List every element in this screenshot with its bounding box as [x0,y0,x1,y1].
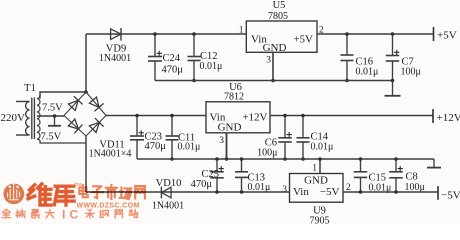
wire bridge bottom vertical [85,136,87,192]
ground symbol center tap [54,116,56,126]
svg-text:7.5V: 7.5V [42,103,63,114]
ground symbol right end [433,159,435,167]
svg-text:3: 3 [266,56,271,66]
svg-text:TM: TM [75,182,82,187]
svg-text:7905: 7905 [310,216,330,225]
svg-text:U5: U5 [273,0,286,11]
svg-text:GND: GND [263,42,287,54]
svg-text:470μ: 470μ [145,141,167,152]
svg-text:0.01μ: 0.01μ [311,142,334,153]
svg-text:1: 1 [239,26,244,36]
diode VD11 b (top-right) [89,97,99,107]
node +12V terminal [432,109,434,123]
svg-text:+12V: +12V [242,112,267,124]
op-amp U9 regulator 7905 box [290,174,344,203]
capacitor C8 100u [395,159,397,192]
svg-text:WWW.DZSC.COM: WWW.DZSC.COM [77,203,140,210]
svg-text:1: 1 [312,164,317,174]
pin 3 U5 GND lead [272,52,274,80]
diode VD10 [161,187,171,198]
wire main ground rail [137,158,434,160]
wire +5V output rail [317,33,434,35]
svg-text:3: 3 [282,185,287,195]
node junction bridge top vertex [84,90,88,94]
capacitor C7 100u [392,34,394,81]
watermark text dianzishichangwang [79,185,87,197]
wire primary bottom lead [16,134,30,136]
svg-text:+5V: +5V [437,30,457,42]
transformer primary winding [26,102,30,136]
diode VD11 d (bottom-right) [89,122,99,132]
svg-text:470μ: 470μ [162,65,184,76]
wire +5V section ground line [155,80,393,82]
transformer core [31,98,33,140]
diode VD11 a (left-top) [68,100,78,110]
svg-text:Vin: Vin [293,186,309,198]
capacitor C25 470u [216,159,218,192]
svg-text:C8: C8 [406,172,418,183]
capacitor C24 470u [154,34,156,81]
svg-text:0.01μ: 0.01μ [369,183,392,194]
capacitor C15 0.01u [360,159,362,192]
wire secondary top connect [37,96,40,99]
capacitor C12 0.01u [193,34,195,81]
svg-text:1N4001×4: 1N4001×4 [89,149,132,160]
svg-text:100μ: 100μ [405,182,425,193]
svg-text:1N4001: 1N4001 [99,53,131,64]
svg-text:0.01μ: 0.01μ [356,67,379,78]
svg-text:−5V: −5V [441,190,460,202]
svg-text:GND: GND [218,122,242,134]
watermark text weiku (big) [28,184,51,205]
node -5V terminal [437,186,439,200]
svg-text:0.01μ: 0.01μ [248,182,271,193]
svg-text:−5V: −5V [320,186,340,198]
diode VD11 c (left-bottom) [68,119,78,129]
svg-text:100μ: 100μ [257,148,277,159]
svg-text:0.01μ: 0.01μ [200,61,223,72]
svg-text:100μ: 100μ [401,67,421,78]
watermark weiku logo circle [3,183,24,204]
wire secondary center tap [37,115,64,117]
wire secondary bottom lead [37,139,86,143]
svg-text:GND: GND [304,175,328,187]
capacitor C14 0.01u [302,116,304,160]
svg-text:VD10: VD10 [156,178,182,189]
wire bridge right to U6 pin 1 [106,115,206,117]
capacitor C6 100u [284,116,286,160]
svg-text:1N4001: 1N4001 [152,201,184,212]
svg-text:T1: T1 [24,83,36,94]
wire vertical bridge-top to top rail [85,34,87,92]
diode VD9 [111,29,121,40]
wire bridge diamond [64,92,106,136]
svg-text:C24: C24 [163,53,181,64]
capacitor C11 0.01u [171,116,173,160]
watermark bottom slogan [2,209,10,217]
svg-text:I: I [62,208,65,222]
wire +12V output rail [270,115,433,117]
capacitor C13 0.01u [241,159,243,192]
svg-text:+5V: +5V [293,34,313,46]
capacitor C23 470u [136,116,138,160]
node +5V terminal [433,27,435,41]
svg-text:3: 3 [219,136,224,146]
svg-text:220V: 220V [1,112,26,124]
op-amp U6 regulator 7812 box [206,102,270,133]
pin 1 U9 GND lead [319,159,321,174]
wire -5V AC feed line [86,191,290,193]
ground symbol of +5V section [392,81,394,96]
wire primary top lead [16,101,30,103]
svg-text:+12V: +12V [437,112,460,124]
svg-text:7812: 7812 [224,92,244,103]
wire -5V output line [343,191,438,193]
wire top rail from bridge top to U5 pin 1 [86,33,246,35]
svg-text:7.5V: 7.5V [41,132,62,143]
op-amp U5 regulator 7805 box [246,21,317,52]
wire transformer secondary top lead [40,92,86,99]
pin 3 U6 GND lead [226,133,228,159]
capacitor C16 0.01u [346,34,348,81]
svg-text:7805: 7805 [268,11,288,22]
transformer secondary winding [37,99,40,140]
svg-text:470μ: 470μ [191,179,213,190]
svg-text:C: C [70,208,79,222]
svg-text:0.01μ: 0.01μ [178,142,201,153]
